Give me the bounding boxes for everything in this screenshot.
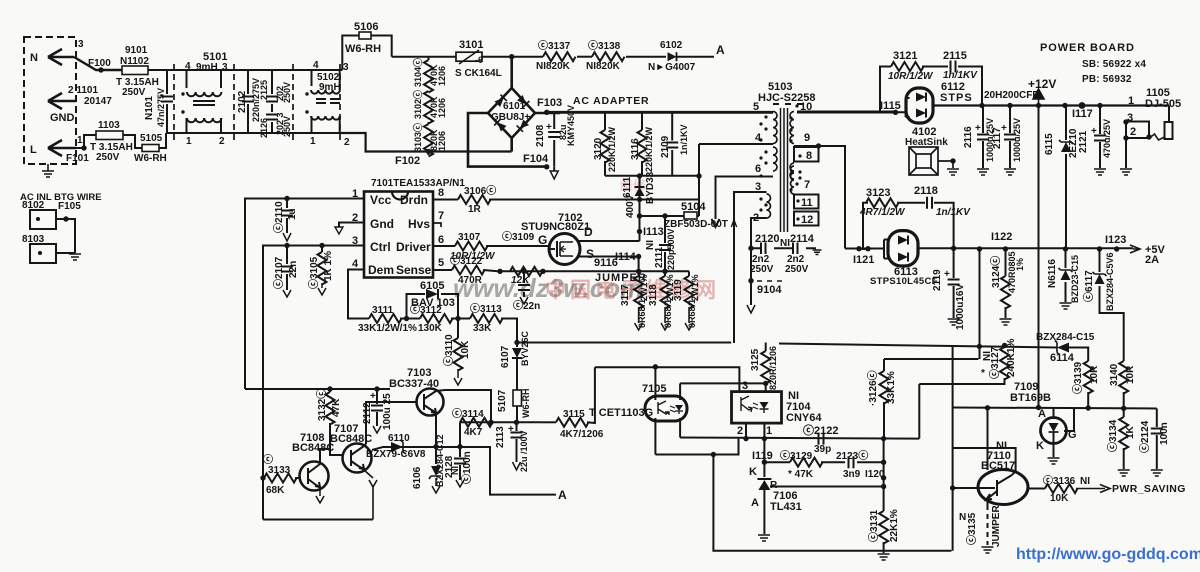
svg-text:N►G4007: N►G4007	[648, 62, 696, 73]
svg-text:http://www.go-gddq.com: http://www.go-gddq.com	[1016, 546, 1200, 563]
svg-text:K: K	[1036, 440, 1044, 452]
cap 2110 1u	[286, 199, 288, 234]
cap 2117	[1009, 106, 1011, 169]
clamp rail	[605, 175, 700, 177]
svg-text:ⓒ3110: ⓒ3110	[442, 334, 455, 366]
svg-text:F105: F105	[58, 201, 81, 212]
svg-text:1K: 1K	[1125, 425, 1136, 439]
svg-text:ⓒ3134: ⓒ3134	[1106, 419, 1119, 452]
svg-text:1103: 1103	[98, 120, 120, 131]
svg-text:3102ⓒ: 3102ⓒ	[412, 90, 423, 119]
drain wire	[578, 240, 640, 242]
svg-text:220K/1/2W: 220K/1/2W	[644, 126, 654, 172]
res 3134 1K	[1123, 408, 1125, 417]
svg-text:47n/275V: 47n/275V	[156, 88, 166, 127]
resistor 3132 47K	[329, 389, 331, 392]
svg-text:ⓒ3127: ⓒ3127	[988, 346, 1001, 379]
svg-text:2: 2	[737, 425, 743, 437]
+5V line	[918, 247, 1133, 249]
svg-text:NI820K: NI820K	[536, 61, 571, 72]
vertical x883.6	[883, 439, 885, 511]
fusible 5107 W6-RH	[513, 390, 522, 406]
svg-text:22n: 22n	[288, 261, 299, 278]
svg-text:DJ-505: DJ-505	[1145, 98, 1181, 110]
svg-text:STPS: STPS	[940, 92, 973, 104]
minus routing	[468, 113, 547, 167]
svg-text:F104: F104	[523, 153, 549, 165]
node F103	[535, 112, 560, 115]
pin 3 wire + second long vertical	[263, 246, 364, 520]
pin 4 dem wire	[348, 270, 369, 319]
svg-text:2120: 2120	[755, 233, 779, 245]
node I113	[637, 229, 642, 234]
res 3139 10R	[1084, 361, 1093, 394]
svg-text:2125: 2125	[259, 80, 269, 100]
svg-text:3123: 3123	[866, 187, 890, 199]
pin 7 stub	[433, 223, 441, 227]
svg-text:220K/1/2W: 220K/1/2W	[607, 126, 617, 172]
svg-text:5: 5	[753, 101, 759, 113]
svg-text:NI: NI	[450, 466, 460, 475]
svg-text:2116: 2116	[963, 126, 974, 148]
svg-text:NI: NI	[780, 238, 790, 249]
svg-text:N: N	[30, 52, 38, 64]
svg-text:ⓒ3138: ⓒ3138	[588, 39, 621, 52]
svg-text:+12V: +12V	[1028, 77, 1056, 91]
line y367 to opto	[595, 367, 740, 391]
svg-text:2118: 2118	[914, 185, 938, 197]
sense resistors 0R68 bank 3117/3118/3119	[638, 271, 640, 276]
zener 6115 2EZ10	[1065, 106, 1067, 141]
rail y389 from pin1 vertical	[245, 388, 390, 390]
7110 collector up	[953, 448, 1016, 475]
svg-text:5105: 5105	[140, 133, 163, 144]
svg-text:2109: 2109	[660, 135, 671, 158]
CNY64 box	[732, 392, 782, 424]
svg-text:6105: 6105	[420, 280, 444, 292]
7105 inner symbol	[658, 401, 669, 415]
svg-text:9: 9	[804, 132, 810, 144]
svg-text:6106: 6106	[412, 466, 423, 489]
7103 base wire	[366, 402, 417, 444]
svg-text:1n/1KV: 1n/1KV	[943, 70, 978, 81]
svg-text:+: +	[508, 424, 514, 435]
svg-text:3: 3	[78, 39, 84, 50]
vertical x952.6	[952, 346, 954, 551]
pin10 output line	[797, 111, 896, 114]
svg-text:1000u16V: 1000u16V	[955, 284, 966, 330]
resistor 3105 1K	[321, 246, 323, 253]
svg-text:6114: 6114	[1050, 352, 1075, 364]
svg-text:I122: I122	[991, 231, 1012, 243]
svg-text:ⓒ22n: ⓒ22n	[513, 299, 540, 312]
7103 emitter down	[435, 413, 437, 446]
svg-text:BZX284-C15: BZX284-C15	[1036, 332, 1095, 343]
7108 emitter arrow	[316, 488, 324, 503]
svg-text:3n9: 3n9	[843, 469, 861, 480]
svg-text:10R: 10R	[1089, 365, 1100, 384]
svg-text:ⓒ3129: ⓒ3129	[780, 449, 813, 462]
svg-text:3121: 3121	[893, 50, 917, 62]
resistor 5105 W6-RH	[142, 145, 159, 152]
svg-text:5104: 5104	[681, 201, 706, 213]
svg-text:TL431: TL431	[770, 501, 802, 513]
svg-text:250V: 250V	[96, 152, 120, 163]
6113 STPS10L45CF	[845, 248, 884, 250]
svg-text:BT169B: BT169B	[1010, 392, 1051, 404]
svg-text:39p: 39p	[814, 444, 831, 455]
wire N to fuse	[74, 57, 122, 70]
svg-text:1: 1	[186, 136, 192, 147]
svg-text:BZX79-C6V8: BZX79-C6V8	[366, 449, 426, 460]
svg-text:ⓒ3114: ⓒ3114	[452, 407, 484, 420]
svg-text:F103: F103	[537, 97, 562, 109]
svg-text:W6-RH: W6-RH	[521, 389, 531, 419]
svg-text:ⓒ3139: ⓒ3139	[1071, 361, 1084, 394]
svg-text:SB: 56922 x4: SB: 56922 x4	[1082, 59, 1146, 70]
svg-text:11: 11	[801, 197, 813, 209]
svg-text:ZBF503D-00T A: ZBF503D-00T A	[664, 219, 738, 230]
7107 emitter to bottom rail	[364, 470, 377, 520]
svg-text:7: 7	[438, 210, 444, 222]
connector dashed box	[24, 37, 76, 164]
svg-text:3120: 3120	[593, 137, 604, 160]
svg-text:1206: 1206	[437, 131, 447, 151]
svg-text:* 47K: * 47K	[788, 469, 814, 480]
cap N101 47n/275V	[166, 70, 168, 133]
svg-text:12: 12	[801, 214, 813, 226]
vertical from +5V node down to bus	[979, 250, 981, 360]
svg-text:8: 8	[438, 187, 444, 199]
aux bus right segment	[779, 344, 1057, 348]
+12V vertical long down	[1038, 106, 1040, 408]
cap 2109	[671, 112, 673, 176]
svg-text:10K: 10K	[460, 340, 471, 359]
svg-text:I119: I119	[752, 450, 773, 462]
svg-text:ⓒ2107: ⓒ2107	[272, 256, 285, 289]
A-net vertical down to bottom rail	[713, 455, 951, 551]
svg-text:F102: F102	[395, 155, 420, 167]
svg-text:820R/1206: 820R/1206	[768, 346, 778, 390]
svg-text:250V: 250V	[122, 87, 146, 98]
svg-text:4: 4	[313, 60, 319, 71]
svg-text:BZD23-C15: BZD23-C15	[1070, 255, 1080, 303]
snubber 3121 + 2115	[880, 67, 896, 113]
core lines	[781, 108, 788, 232]
svg-text:Dem: Dem	[368, 263, 394, 277]
svg-text:ⓒ3113: ⓒ3113	[470, 302, 502, 315]
svg-text:ⓒ3137: ⓒ3137	[538, 39, 571, 52]
pin 8 drain + resistor 3106 1R	[433, 199, 458, 201]
svg-text:3: 3	[222, 62, 228, 73]
svg-text:Ctrl: Ctrl	[370, 240, 391, 254]
svg-text:250V: 250V	[282, 116, 292, 137]
svg-text:470R0805: 470R0805	[1007, 251, 1017, 293]
res 3124 470R	[1005, 249, 1007, 276]
pin 6 driver + resistor 3107	[433, 245, 455, 247]
svg-text:2: 2	[344, 137, 350, 148]
svg-text:STPS10L45CF: STPS10L45CF	[870, 276, 938, 287]
svg-text:N1102: N1102	[120, 56, 149, 67]
svg-text:3140: 3140	[1109, 363, 1120, 386]
svg-text:2102: 2102	[237, 90, 248, 113]
fuse 1102	[122, 66, 148, 75]
svg-text:3117: 3117	[620, 284, 631, 306]
svg-text:BC848C: BC848C	[330, 433, 372, 445]
svg-text:2112: 2112	[362, 402, 373, 424]
svg-text:I115: I115	[880, 100, 901, 112]
svg-text:D: D	[584, 225, 593, 239]
svg-text:2: 2	[219, 136, 225, 147]
svg-text:240K1%: 240K1%	[1006, 339, 1017, 377]
svg-text:2 1101: 2 1101	[68, 85, 98, 96]
9104 jumper vertical with arrow	[750, 248, 752, 305]
R line3	[770, 486, 884, 488]
svg-text:*: *	[981, 368, 985, 379]
svg-text:3133: 3133	[268, 465, 291, 476]
pin 11 / 12 boxes	[794, 195, 819, 209]
pin 1 wire + long left vertical	[245, 199, 364, 390]
svg-text:1206: 1206	[437, 98, 447, 118]
svg-text:3116: 3116	[630, 138, 641, 160]
CNY64 pin2 down	[745, 423, 747, 439]
svg-text:BZX284-C5V6: BZX284-C5V6	[1105, 252, 1115, 311]
svg-text:F101: F101	[66, 153, 89, 164]
svg-text:1R: 1R	[468, 204, 482, 215]
svg-text:2123ⓒ: 2123ⓒ	[836, 449, 868, 462]
resistor 3116	[641, 112, 643, 130]
svg-text:G: G	[538, 233, 547, 247]
svg-text:F100: F100	[88, 58, 111, 69]
svg-text:PWR_SAVING: PWR_SAVING	[1112, 483, 1186, 495]
svg-text:N: N	[959, 512, 966, 523]
svg-text:1: 1	[77, 135, 83, 146]
7110 emitter / 3135 jumper dashed	[987, 500, 989, 505]
7105 rounded outline	[645, 396, 687, 421]
caps 2125 / 2126 series	[271, 70, 273, 133]
svg-text:4R7/1/2W: 4R7/1/2W	[859, 207, 906, 218]
svg-text:22u /100V: 22u /100V	[519, 430, 529, 472]
bottom rail	[263, 519, 373, 521]
svg-text:S CK164L: S CK164L	[455, 68, 502, 79]
5104 line	[640, 215, 700, 217]
cap 2124 100n	[1156, 409, 1158, 470]
svg-text:2117: 2117	[992, 127, 1003, 149]
svg-text:250V: 250V	[750, 264, 774, 275]
res 3140 10R	[1119, 361, 1128, 394]
svg-text:POWER BOARD: POWER BOARD	[1040, 42, 1135, 54]
bottom bus L	[166, 132, 341, 134]
crowbar rail	[953, 408, 1157, 409]
fuse 1103	[96, 131, 123, 140]
line y359 and y384	[884, 358, 978, 360]
zener 6117	[1099, 249, 1101, 272]
diode 6105 BAV103 bridge	[407, 294, 459, 319]
svg-text:W6-RH: W6-RH	[134, 153, 167, 164]
svg-text:250V: 250V	[785, 264, 809, 275]
svg-text:N6116: N6116	[1047, 259, 1058, 288]
svg-text:4K7: 4K7	[464, 427, 483, 438]
svg-text:2114: 2114	[790, 233, 815, 245]
svg-text:ⓒ2122: ⓒ2122	[803, 423, 838, 437]
svg-text:CNY64: CNY64	[786, 412, 822, 424]
3127 240K NI	[1002, 343, 1007, 348]
cap 2111 220p	[664, 216, 666, 272]
svg-text:3124ⓒ: 3124ⓒ	[989, 256, 1002, 288]
svg-text:3132ⓒ: 3132ⓒ	[315, 389, 328, 421]
3114 line	[460, 421, 540, 423]
svg-text:9104: 9104	[757, 284, 782, 296]
svg-text:ⓒ100n: ⓒ100n	[460, 451, 473, 484]
svg-text:4K7/1206: 4K7/1206	[560, 429, 604, 440]
svg-text:7: 7	[804, 179, 810, 191]
svg-text:NI: NI	[1080, 476, 1090, 487]
ground under box	[47, 164, 49, 171]
7108 collector up join	[320, 449, 330, 464]
caps 2120 / 2114 bottom	[751, 247, 816, 249]
line y446 with 6110	[372, 447, 556, 495]
svg-text:Vcc: Vcc	[370, 193, 392, 207]
svg-text:220p500V: 220p500V	[666, 228, 676, 270]
svg-text:2119: 2119	[932, 269, 943, 291]
7103 collector to 3114 line	[436, 390, 491, 422]
svg-text:1: 1	[310, 136, 316, 147]
svg-text:I114: I114	[615, 251, 637, 263]
svg-text:2108: 2108	[535, 124, 546, 147]
svg-text:47K: 47K	[331, 398, 342, 417]
cap 2119 1000u16V	[953, 248, 955, 318]
svg-text:I121: I121	[853, 254, 874, 266]
pin L arrow	[48, 140, 76, 156]
bus to 3101	[392, 56, 456, 58]
svg-text:0R68/1: 0R68/1	[637, 299, 647, 328]
svg-text:·3126ⓒ: ·3126ⓒ	[866, 370, 879, 406]
svg-text:Drdn: Drdn	[400, 193, 428, 207]
resistor 3133 68K	[260, 475, 265, 480]
svg-text:BAV 103: BAV 103	[411, 297, 455, 309]
line2 3129/2123	[764, 461, 790, 463]
svg-text:0R68/1: 0R68/1	[687, 299, 697, 328]
svg-text:3118: 3118	[648, 284, 659, 306]
svg-text:2A: 2A	[1145, 254, 1159, 266]
svg-text:+: +	[370, 391, 376, 402]
resistor 3110 10K	[457, 319, 459, 339]
svg-text:4: 4	[352, 258, 359, 270]
svg-text:470R: 470R	[458, 275, 483, 286]
CNY64 pin1 down to K node	[763, 423, 765, 477]
svg-text:100u 25: 100u 25	[382, 393, 393, 430]
zener 6116	[1065, 249, 1067, 268]
cap 2116	[982, 106, 984, 169]
top bus N	[160, 69, 342, 71]
svg-text:68K: 68K	[266, 485, 285, 496]
svg-text:1%: 1%	[1015, 258, 1025, 271]
svg-text:1: 1	[1128, 95, 1134, 107]
3125 820R	[765, 343, 767, 352]
svg-text:A: A	[716, 43, 725, 57]
svg-text:3101: 3101	[459, 39, 483, 51]
svg-text:A: A	[1038, 408, 1046, 420]
pin 5 sense + resistor 3122 470R	[433, 269, 452, 271]
thermistor 3101	[456, 52, 482, 61]
svg-text:2121: 2121	[1078, 130, 1089, 153]
svg-text:8: 8	[806, 150, 812, 162]
svg-text:GND: GND	[50, 112, 75, 124]
svg-text:3: 3	[343, 62, 349, 73]
svg-text:20147: 20147	[84, 96, 112, 107]
resistor 3120	[604, 112, 606, 130]
1R line from pin8 joins x699	[698, 144, 700, 216]
svg-text:9101: 9101	[125, 45, 148, 56]
svg-text:250V: 250V	[282, 82, 292, 103]
svg-text:1206: 1206	[437, 66, 447, 86]
pin N arrow	[48, 49, 74, 65]
svg-text:Driver: Driver	[396, 240, 431, 254]
cap 2103 22n	[523, 271, 525, 297]
svg-text:2126: 2126	[259, 118, 269, 138]
wire 5105 to filter bottom bus	[159, 133, 166, 148]
svg-text:NI820K: NI820K	[586, 61, 621, 72]
svg-text:A: A	[751, 497, 759, 509]
F102 line	[341, 133, 512, 152]
svg-text:I113: I113	[643, 226, 664, 238]
svg-text:130K: 130K	[418, 323, 443, 334]
svg-text:+: +	[944, 269, 950, 280]
line y455 under 7105	[655, 439, 738, 455]
svg-text:+: +	[1091, 126, 1097, 137]
svg-text:33K: 33K	[473, 323, 492, 334]
source wire to I114	[578, 257, 639, 272]
svg-text:3: 3	[742, 380, 748, 392]
svg-text:I123: I123	[1105, 234, 1126, 246]
svg-text:3104ⓒ: 3104ⓒ	[412, 58, 423, 87]
6112 STPS dual diode	[896, 98, 910, 117]
svg-text:+: +	[975, 123, 981, 134]
svg-text:33K1/2W/1%: 33K1/2W/1%	[358, 323, 417, 334]
shield dashed lines	[174, 64, 340, 140]
svg-text:GBU8J+: GBU8J+	[491, 112, 530, 123]
svg-text:L: L	[30, 144, 37, 156]
svg-text:1n/1KV: 1n/1KV	[679, 124, 689, 155]
svg-text:100n: 100n	[1159, 422, 1170, 445]
svg-text:22K1%: 22K1%	[889, 509, 900, 542]
svg-text:9mH: 9mH	[319, 82, 341, 93]
svg-text:ⓒ3135: ⓒ3135	[965, 512, 978, 545]
svg-text:BYV26C: BYV26C	[520, 330, 530, 366]
svg-text:1: 1	[766, 425, 772, 437]
svg-text:2115: 2115	[943, 50, 967, 62]
svg-text:2113: 2113	[495, 426, 506, 448]
svg-text:K: K	[749, 466, 757, 478]
svg-text:AC ADAPTER: AC ADAPTER	[573, 95, 649, 107]
3131 22K1%	[879, 511, 888, 544]
svg-text:7101TEA1533AP/N1: 7101TEA1533AP/N1	[371, 178, 465, 189]
svg-text:9116: 9116	[594, 257, 618, 269]
svg-text:9mH: 9mH	[196, 62, 218, 73]
secondary dots column	[789, 116, 792, 119]
svg-text:Sense: Sense	[396, 263, 432, 277]
svg-text:3125: 3125	[750, 348, 761, 371]
svg-text:6: 6	[755, 163, 761, 175]
svg-text:I117: I117	[1072, 108, 1093, 120]
svg-text:6101: 6101	[503, 101, 526, 112]
svg-text:2: 2	[1130, 126, 1136, 138]
svg-text:ⓒ2124: ⓒ2124	[1138, 420, 1151, 453]
svg-text:N101: N101	[144, 96, 155, 120]
svg-text:ⓒ6117: ⓒ6117	[1082, 270, 1095, 302]
res 3136 10K + PWR_SAVING	[1028, 488, 1045, 490]
svg-text:Hvs: Hvs	[408, 217, 430, 231]
